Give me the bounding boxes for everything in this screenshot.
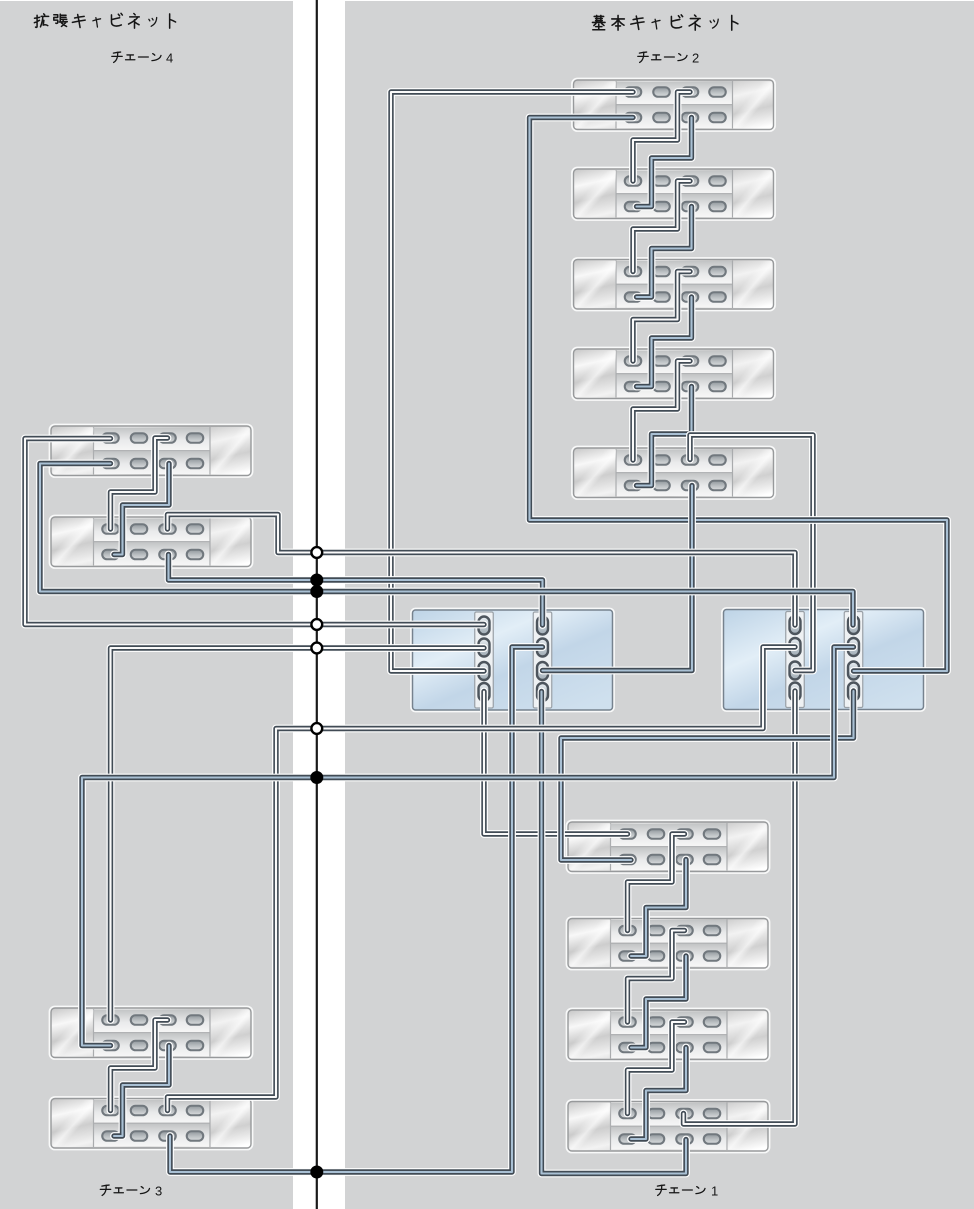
wire chain2 s1-s2 blue link (637, 118, 692, 207)
wire chain1 s3-s4 white link (628, 1022, 685, 1114)
disk shelf chain1-1 (567, 821, 769, 873)
label chain1-label (656, 1185, 705, 1195)
disk shelf chain2-2 (572, 168, 774, 220)
wire right-ctrl port B4 to chain1-s1 bot-p1 (561, 691, 854, 860)
junction filled dot y=777.5 (310, 771, 323, 784)
wire right-ctrl port A4 to chain1-s4 top-p3 (684, 691, 796, 1124)
label kihon-cabinet (592, 15, 737, 30)
junction open dot y=648 (311, 643, 322, 654)
wire chain2 s4-s5 blue link (637, 387, 692, 486)
junction open dot y=552.5 (311, 547, 322, 558)
wire chain1 s1-s2 blue link (631, 860, 686, 957)
junction open dot y=624.5 (311, 619, 322, 630)
disk shelf chain2-1 (572, 79, 774, 131)
label kakucho-cabinet (34, 13, 175, 28)
disk shelf chain3-1 (50, 1007, 252, 1059)
wire chain4-s1 top-p1 to left-ctrl port A1 (25, 439, 484, 625)
wire chain1 s1-s2 white link (628, 834, 685, 931)
wire chain2 s1-s2 white link (633, 92, 690, 181)
junction filled dot y=580 (310, 574, 323, 587)
wire chain2 s2-s3 blue link (637, 207, 692, 298)
right cabinet panel (345, 1, 974, 1209)
wire chain3 s1-s2 white link (111, 1020, 168, 1111)
label chain4-label (112, 52, 161, 62)
disk shelf chain4-2 (50, 516, 252, 568)
wire chain3-s2 top-p3 to right-ctrl port A2 (168, 647, 796, 1111)
disk shelf chain1-4 (567, 1100, 769, 1152)
disk shelf chain4-1 (50, 425, 252, 477)
wire chain4-s2 bot-p3 to left-ctrl port B1 (169, 555, 543, 626)
wire chain2-s1 bot-p1 to right-ctrl port B3 (530, 118, 948, 672)
cabinet divider line (316, 0, 318, 1209)
disk shelf chain2-5 (572, 447, 774, 499)
junction open dot y=728.5 (311, 723, 322, 734)
controller left (411, 609, 613, 711)
disk shelf chain1-3 (567, 1009, 769, 1061)
wire chain4 s1-s2 white link (111, 438, 168, 529)
wire left-ctrl port B3 to chain2-s5 bot-p3 (543, 486, 693, 671)
wire chain1 s2-s3 blue link (631, 956, 686, 1048)
wire chain2 s2-s3 white link (633, 181, 690, 272)
label chain2-label (638, 52, 687, 62)
junction filled dot y=1172 (310, 1166, 323, 1179)
svg-text:1: 1 (711, 1184, 718, 1199)
wire chain4-s1 bot-p1 to right-ctrl port B1 (40, 464, 853, 626)
junction filled dot y=591.5 (310, 585, 323, 598)
wire chain2 s3-s4 blue link (637, 297, 692, 387)
wire chain3 s1-s2 blue link (114, 1046, 169, 1137)
wire chain1 s2-s3 white link (628, 931, 685, 1023)
wire chain1 s3-s4 blue link (631, 1048, 686, 1140)
disk shelf chain1-2 (567, 917, 769, 969)
svg-text:3: 3 (155, 1184, 162, 1199)
disk shelf chain3-2 (50, 1097, 252, 1149)
wire chain2 s4-s5 white link (633, 361, 690, 460)
wire left-ctrl port B4 to chain1-s4 bot-p3 (542, 692, 687, 1174)
label chain3-label (100, 1185, 149, 1195)
svg-text:2: 2 (692, 51, 699, 66)
disk shelf chain2-3 (572, 258, 774, 310)
wire right-ctrl port B2 to chain3-s1 bot-p1 (82, 647, 854, 1046)
disk shelf chain2-4 (572, 348, 774, 400)
svg-text:4: 4 (166, 51, 173, 66)
controller right (722, 608, 924, 710)
wire chain2 s3-s4 white link (633, 272, 690, 362)
wire left-ctrl port A4 to chain1-s1 top-p1 (484, 692, 628, 835)
wire chain4 s1-s2 blue link (114, 464, 169, 555)
wire chain3-s1 top-p1 to left-ctrl port A2 (111, 648, 485, 1020)
left cabinet panel (0, 1, 293, 1209)
wire chain3-s2 bot-p3 to left-ctrl port B2 (170, 647, 543, 1172)
wire chain4-s2 top-p3 to right-ctrl port A1 (168, 515, 796, 626)
wire chain2-s5 top-p3 to right-ctrl port A3 (690, 435, 813, 671)
wire chain2-s1 top-p1 to left-ctrl port A1 (391, 92, 633, 671)
